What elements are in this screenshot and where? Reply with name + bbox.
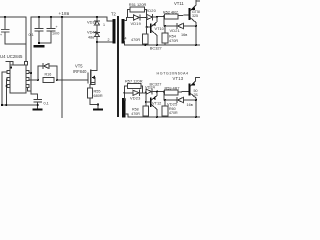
node drain [96, 41, 98, 43]
svg-text:R16: R16 [45, 73, 52, 77]
wire VREF drop to pin 8 [25, 17, 27, 62]
svg-text:2Б: 2Б [194, 93, 199, 97]
svg-text:470R: 470R [169, 39, 178, 43]
svg-text:325: 325 [192, 14, 198, 18]
wire pin left 2 [5, 79, 8, 105]
ground bottom left [33, 109, 43, 111]
resistor R54 470R [162, 26, 178, 45]
node A [4, 16, 6, 18]
resistor R60 470R [162, 100, 178, 117]
svg-text:680R: 680R [94, 94, 103, 98]
wire pin right bottom [28, 88, 32, 92]
node clamp top [96, 16, 98, 18]
svg-text:IRF840: IRF840 [73, 69, 87, 74]
svg-text:4: 4 [125, 37, 127, 41]
wire pin left 1 [2, 72, 7, 105]
wire secondary lower tap [124, 93, 125, 100]
diode VD21 [164, 16, 196, 33]
transformer secondary winding upper [121, 19, 124, 44]
svg-text:VD23: VD23 [130, 96, 141, 101]
node VD25 right [195, 99, 197, 101]
wire cap commons [39, 42, 51, 44]
diode VD24 [145, 85, 164, 95]
node VD19 out [146, 17, 148, 19]
svg-text:VD45: VD45 [87, 30, 97, 35]
node VD21 right [195, 25, 197, 27]
svg-text:T2: T2 [111, 12, 117, 17]
node C2 top [38, 16, 40, 18]
node VD21 branch [163, 15, 165, 17]
wire base node VT12 [146, 93, 150, 102]
svg-text:+: + [56, 25, 58, 29]
node base VT12 [145, 101, 147, 103]
svg-text:470R: 470R [131, 38, 140, 42]
transistor VT11 [174, 0, 200, 45]
wire pin left 3 [5, 85, 8, 87]
wire ground left [5, 43, 25, 45]
resistor R58 470R [131, 102, 148, 117]
wire drain vertical [96, 42, 98, 71]
svg-text:0,1: 0,1 [44, 102, 49, 106]
resistor R16 gate [43, 73, 54, 83]
svg-text:48в: 48в [88, 36, 94, 40]
resistor R57 120R [124, 79, 142, 93]
wire output rail bottom [128, 116, 200, 118]
svg-text:470R: 470R [131, 112, 140, 116]
svg-text:470R: 470R [169, 111, 178, 115]
capacitor C1 [0, 17, 9, 44]
node VT10 emitter [156, 16, 158, 18]
wire ground rail bottom left [2, 104, 38, 106]
wire output rail top [146, 44, 201, 46]
transistor VT10 BC327 [150, 17, 165, 51]
svg-text:HGTG30N60A4: HGTG30N60A4 [157, 72, 189, 76]
wire lower winding bottom tap [126, 114, 129, 117]
svg-text:VT13: VT13 [173, 76, 184, 81]
node rail emitter [195, 44, 197, 46]
svg-text:+18в: +18в [59, 11, 70, 16]
transformer secondary winding lower [122, 98, 125, 118]
node gate block right [56, 79, 58, 81]
node source ground [97, 103, 99, 105]
diode VD19 [127, 15, 147, 26]
wire out pin [29, 79, 38, 81]
node rail left [1, 104, 3, 106]
diode VD25 [164, 92, 196, 107]
svg-text:1: 1 [103, 23, 105, 27]
wire VREF top rail [0, 16, 26, 18]
capacitor C2 0,1 [29, 17, 44, 43]
svg-text:VT10: VT10 [155, 26, 165, 31]
svg-text:VD20: VD20 [146, 8, 157, 13]
svg-text:2: 2 [108, 38, 110, 42]
svg-text:R54: R54 [169, 35, 176, 39]
svg-text:0,1: 0,1 [29, 33, 34, 37]
transformer core [117, 16, 119, 117]
resistor R52 4R7 [163, 11, 189, 20]
svg-text:VT5: VT5 [75, 63, 83, 68]
resistor R55 680R [87, 88, 103, 105]
svg-text:VD25: VD25 [167, 102, 178, 107]
diode VD7 gate [38, 63, 57, 80]
wire VCC jog [29, 72, 31, 73]
node rail VT12 [156, 116, 158, 118]
svg-text:R57 120R: R57 120R [125, 79, 143, 84]
node VCC pin7 [30, 72, 32, 74]
mosfet VT5 IRF840 [73, 63, 97, 88]
node pin7 corner [10, 67, 12, 69]
resistor R53 470R [131, 27, 148, 45]
node base VT10 [146, 26, 148, 28]
svg-text:BC327: BC327 [150, 46, 162, 51]
capacitor C3 1m0 [47, 17, 59, 43]
zener VD16 [87, 17, 100, 32]
IC U4 UC2845 [0, 54, 29, 93]
svg-text:VD24: VD24 [145, 85, 156, 90]
node rail VT10 [156, 44, 158, 46]
svg-text:1m0: 1m0 [52, 32, 59, 36]
wire gate [57, 79, 88, 81]
node VD23 out [145, 91, 147, 93]
wire secondary pin4 to rail [124, 42, 145, 46]
ground [34, 45, 45, 47]
zener VD45 48V [87, 30, 100, 43]
node C3 top [50, 16, 52, 18]
node VD25 branch [163, 91, 165, 93]
svg-text:+: + [0, 33, 2, 37]
svg-text:VD21: VD21 [170, 28, 181, 33]
svg-text:VD19: VD19 [131, 21, 142, 26]
wire VCC drop [30, 17, 32, 94]
node tap R57 [123, 92, 125, 94]
transformer T2 primary winding [113, 19, 116, 44]
node rail R53 [145, 44, 147, 46]
resistor R51 120R [127, 2, 146, 17]
node rail cap [37, 104, 39, 106]
ground source [93, 105, 103, 111]
wire primary pin1 jog [107, 17, 113, 21]
node VT12 upper [156, 91, 158, 93]
wire primary pin2 [97, 41, 113, 43]
node rail mid [5, 104, 7, 106]
transistor VT13 [189, 78, 200, 118]
node +18 feed [61, 16, 63, 18]
svg-text:VD16: VD16 [87, 20, 97, 25]
svg-text:16в: 16в [181, 33, 187, 37]
wire +18v rail [31, 16, 107, 18]
wire pin7 stub [6, 61, 11, 63]
node R54 top [164, 25, 166, 27]
wire +18 input from bottom edge [61, 17, 63, 118]
node gate block left [37, 79, 39, 81]
resistor R59 4R7 [165, 86, 189, 95]
svg-text:R51 120R: R51 120R [129, 2, 147, 7]
capacitor C4 0,1 bottom [31, 94, 49, 109]
svg-text:VT12: VT12 [152, 100, 161, 105]
transistor VT12 BC327 [150, 92, 162, 118]
wire base node VT10 [147, 18, 150, 28]
node cap ground [38, 42, 40, 44]
svg-text:16в: 16в [187, 103, 193, 107]
diode VD20 [146, 8, 165, 20]
node rail emitter13 [195, 116, 197, 118]
svg-text:U4 UC2845: U4 UC2845 [0, 54, 23, 59]
diode VD23 [124, 90, 146, 101]
svg-text:VT11: VT11 [174, 1, 184, 6]
node R60 top [164, 99, 166, 101]
wire secondary top tap [124, 18, 129, 21]
